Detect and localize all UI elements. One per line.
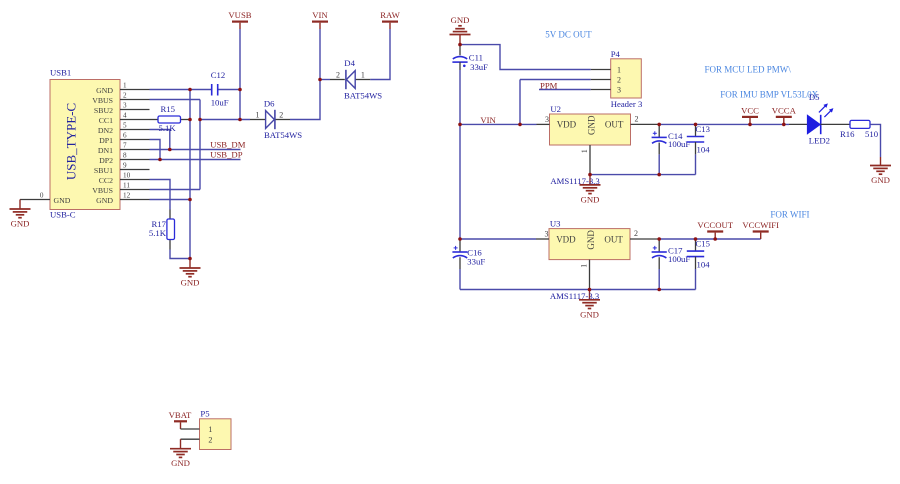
diode D6 BAT54WS [250,98,302,140]
svg-text:5V DC OUT: 5V DC OUT [545,29,592,39]
junction C13/OUT [694,123,698,127]
junction DN on USB_DM [168,148,172,152]
svg-text:100uF: 100uF [668,139,690,149]
wire C13 to gnd rail [695,154,697,174]
U3 pin 2 OUT stub [630,238,659,240]
wire VIN down to U3 row [459,124,461,239]
wire VIN to U3 [460,238,536,240]
junction U2 GND [588,173,592,177]
resistor R16 510 [840,120,879,139]
U3 pin 1 GND stub [589,260,591,290]
svg-text:D6: D6 [264,98,275,108]
wire D4 anode to RAW [370,29,390,80]
svg-text:USB_DP: USB_DP [210,149,243,159]
svg-text:5.1K: 5.1K [149,228,167,238]
LED D5 LED2 [789,92,850,145]
capacitor C14 100uF [652,124,691,154]
svg-text:2: 2 [617,75,621,84]
svg-text:LED2: LED2 [809,136,830,146]
svg-text:3: 3 [545,230,549,239]
svg-text:GND: GND [586,230,596,250]
svg-text:RAW: RAW [380,10,400,20]
svg-text:D5: D5 [809,92,820,102]
svg-text:2: 2 [635,115,639,124]
voltage regulator U3 AMS1117-3.3 [549,218,630,259]
svg-text:11: 11 [123,182,130,190]
svg-text:VUSB: VUSB [228,10,251,20]
svg-text:Header 3: Header 3 [611,99,643,109]
ground GND at USB shield [10,200,31,229]
svg-text:510: 510 [865,129,879,139]
svg-text:10uF: 10uF [211,97,229,107]
svg-text:VBUS: VBUS [92,96,113,105]
wire D6 cathode to VIN [290,29,320,120]
svg-text:SBU1: SBU1 [94,166,113,175]
USB1 pin 5 [120,122,150,130]
junction P4 pin2/VIN [518,123,522,127]
svg-text:VCCOUT: VCCOUT [697,220,733,230]
power port VCCOUT [697,220,733,239]
resistor R17 5.1K [149,210,175,250]
junction VCCA [782,123,786,127]
junction pin1/C12/GND [188,88,192,92]
svg-text:USB-C: USB-C [50,210,76,220]
svg-text:VCCA: VCCA [772,105,797,115]
resistor R15 5.1K [150,104,191,133]
svg-text:GND: GND [96,196,113,205]
wire PPM to P4 pin3 [539,89,591,91]
svg-text:3: 3 [545,115,549,124]
header P4 Header 3 [611,49,643,109]
junction C17/OUT [657,237,661,241]
svg-text:1: 1 [208,425,212,434]
wire U2 OUT row [659,123,789,125]
svg-text:C12: C12 [211,70,225,80]
USB type-C connector USB1 [50,68,120,220]
svg-text:10: 10 [123,172,131,180]
svg-text:5.1K: 5.1K [159,123,177,133]
wire pin12 GND [150,199,191,201]
junction C14/OUT [657,123,661,127]
wire C16 to gnd rail [459,269,461,290]
svg-text:2: 2 [208,435,212,444]
wire U3 gnd rail [460,289,696,291]
U2 pin 3 VDD stub [537,123,550,125]
USB1 pin 3 [120,102,150,110]
wire VUSB vertical [239,29,241,120]
svg-text:P4: P4 [611,49,621,59]
wire pin2 VBUS [150,99,201,101]
USB1 pin 11 [120,182,150,190]
wire R16 to GND [870,124,881,157]
svg-text:0: 0 [40,191,44,199]
wire pin11 VBUS [150,189,201,191]
junction U3 GND [588,288,592,292]
svg-text:VDD: VDD [556,234,576,244]
svg-text:C15: C15 [696,238,710,248]
svg-text:1: 1 [361,70,365,79]
P5 pin 2 wire [181,438,200,440]
ground GND below R17 [180,259,201,288]
wire GND vertical [189,90,191,259]
voltage regulator U2 AMS1117-3.3 [550,104,631,145]
wire C11 to VIN row [459,70,461,124]
junction pin12 GND [188,198,192,202]
power port VIN [312,10,328,29]
P5 pin 1 wire [181,428,200,430]
svg-text:VCCWIFI: VCCWIFI [742,220,779,230]
P4 pin 1 stub [591,69,611,71]
svg-text:PPM: PPM [540,80,558,90]
svg-text:DN2: DN2 [98,126,113,135]
svg-text:1: 1 [123,82,127,90]
svg-text:33uF: 33uF [467,257,485,267]
svg-text:1: 1 [580,149,589,153]
power port VCC [741,105,759,124]
USB1 pin 1 [120,82,150,90]
power port VCCWIFI [742,220,779,239]
svg-text:USB_TYPE-C: USB_TYPE-C [64,103,79,180]
svg-text:GND: GND [54,196,71,205]
USB1 pin 4 [120,112,150,120]
svg-text:D4: D4 [344,58,355,68]
wire U2 gnd rail [590,174,696,176]
svg-text:GND: GND [587,115,597,135]
svg-text:CC1: CC1 [99,116,113,125]
wire U3 OUT row [659,238,761,240]
capacitor C13 104 [687,124,710,155]
svg-text:BAT54WS: BAT54WS [344,91,382,101]
svg-text:6: 6 [123,132,127,140]
junction R15/GND [188,118,192,122]
svg-text:U2: U2 [550,104,561,114]
svg-text:FOR IMU BMP VL53L0X: FOR IMU BMP VL53L0X [720,90,818,100]
svg-text:R16: R16 [840,129,855,139]
USB1 pin 2 [120,92,150,100]
svg-text:7: 7 [123,142,127,150]
svg-text:FOR MCU LED PMW\: FOR MCU LED PMW\ [705,64,792,74]
svg-text:9: 9 [123,162,127,170]
svg-text:DN1: DN1 [98,146,113,155]
svg-text:USB_DM: USB_DM [210,139,246,149]
wire USB_DP net [150,159,241,161]
svg-text:1: 1 [617,65,621,74]
svg-text:12: 12 [123,192,131,200]
svg-text:GND: GND [581,194,600,204]
svg-text:C11: C11 [469,52,483,62]
svg-text:8: 8 [123,152,127,160]
wire VBUS to D6 anode [200,119,250,121]
svg-text:104: 104 [697,145,711,155]
svg-text:DP2: DP2 [99,156,113,165]
junction C14 bottom [657,173,661,177]
svg-text:GND: GND [451,15,470,25]
svg-text:1: 1 [256,110,260,119]
USB1 pin 9 [120,162,150,170]
svg-text:VCC: VCC [741,105,759,115]
power port VCCA [772,105,797,124]
junction VIN/D4 [318,78,322,82]
svg-text:C13: C13 [696,124,710,134]
svg-text:2: 2 [123,92,127,100]
svg-text:GND: GND [181,278,200,288]
USB1 pin 8 [120,152,150,160]
junction VCC [748,123,752,127]
svg-text:33uF: 33uF [470,62,488,72]
junction VIN/U3/C16 [458,237,462,241]
wire pin10 CC2 to R17 [150,180,171,210]
svg-text:USB1: USB1 [50,68,71,78]
USB1 pin 10 [120,172,150,180]
svg-text:2: 2 [279,110,283,119]
svg-text:5: 5 [123,122,127,130]
capacitor C16 33uF [452,239,485,269]
svg-text:DP1: DP1 [99,136,113,145]
P4 pin 3 stub [591,89,611,91]
svg-text:1: 1 [580,264,589,268]
wire C17 to gnd rail [658,269,660,290]
junction C17 bottom [657,288,661,292]
wire pin5 DN2 down to DM net [150,130,170,150]
power port VUSB [228,10,251,29]
junction C12/VUSB [238,88,242,92]
USB1 pin 7 [120,142,150,150]
junction R17/GND symbol [188,257,192,261]
wire R17 to GND [170,250,190,259]
svg-text:P5: P5 [200,409,209,419]
power port VBAT [169,410,192,429]
header P5 [200,409,232,450]
svg-text:VDD: VDD [557,120,577,130]
svg-text:VBAT: VBAT [169,410,192,420]
svg-text:AMS1117-3.3: AMS1117-3.3 [550,291,599,301]
svg-text:AMS1117-3.3: AMS1117-3.3 [550,176,599,186]
wire pin1 GND to C12 [150,89,212,91]
svg-text:R15: R15 [161,104,175,114]
svg-text:4: 4 [123,112,127,120]
wire GND to P4 pin1 [460,45,591,70]
svg-text:2: 2 [336,70,340,79]
USB1 pin 6 [120,132,150,140]
svg-text:VIN: VIN [480,115,496,125]
svg-text:100uF: 100uF [668,254,690,264]
U2 pin 1 GND stub [589,145,591,175]
USB1 pin 12 [120,192,150,200]
wire C15 to gnd rail [695,269,697,290]
junction VCCOUT [713,237,717,241]
svg-text:BAT54WS: BAT54WS [264,130,302,140]
svg-text:VBUS: VBUS [92,186,113,195]
svg-text:3: 3 [617,85,621,94]
U2 pin 2 OUT stub [631,123,660,125]
ground GND under U3 [579,290,600,320]
ground GND below P5 [170,439,191,468]
svg-text:GND: GND [96,86,113,95]
svg-text:GND: GND [11,219,30,229]
svg-text:CC2: CC2 [99,176,113,185]
svg-text:3: 3 [123,102,127,110]
ground GND right of R16 [870,157,891,185]
wire P4 pin2 [520,79,591,81]
svg-text:104: 104 [697,259,711,269]
capacitor C15 104 [687,238,710,269]
power port RAW [380,10,400,29]
svg-text:GND: GND [580,309,599,319]
wire VBUS vertical [199,100,201,190]
svg-text:GND: GND [171,458,190,468]
svg-text:SBU2: SBU2 [94,106,113,115]
svg-text:2: 2 [634,229,638,238]
ground GND under U2 [580,175,601,205]
svg-text:U3: U3 [550,218,561,228]
wire pin6 DP1 down to DP net [150,140,161,160]
capacitor C11 33uF [452,45,488,72]
U3 pin 3 VDD stub [536,238,549,240]
junction DP on USB_DP [158,158,162,162]
ground GND top of input [450,15,471,44]
svg-text:OUT: OUT [604,234,623,244]
junction C15/OUT [694,237,698,241]
junction VIN row [458,123,462,127]
USB1 pin 0 (shield GND) [20,191,50,199]
junction VBUS tap [198,118,202,122]
capacitor C12 10uF [211,70,229,108]
capacitor C17 100uF [652,239,691,269]
junction VUSB/D6 [238,118,242,122]
svg-text:FOR WIFI: FOR WIFI [770,209,809,219]
svg-text:GND: GND [871,175,890,185]
wire C12 to VUSB [218,89,240,91]
wire VIN to D4 cathode [320,79,330,81]
wire VIN row to U2 [460,123,537,125]
wire USB_DM net [150,149,241,151]
svg-text:OUT: OUT [605,120,624,130]
wire P4 pin2 down to VIN [519,80,521,125]
P4 pin 2 stub [591,79,611,81]
diode D4 BAT54WS [330,58,382,100]
junction GND/C11 [458,43,462,47]
wire C14 to gnd rail [658,154,660,174]
svg-text:VIN: VIN [312,10,328,20]
